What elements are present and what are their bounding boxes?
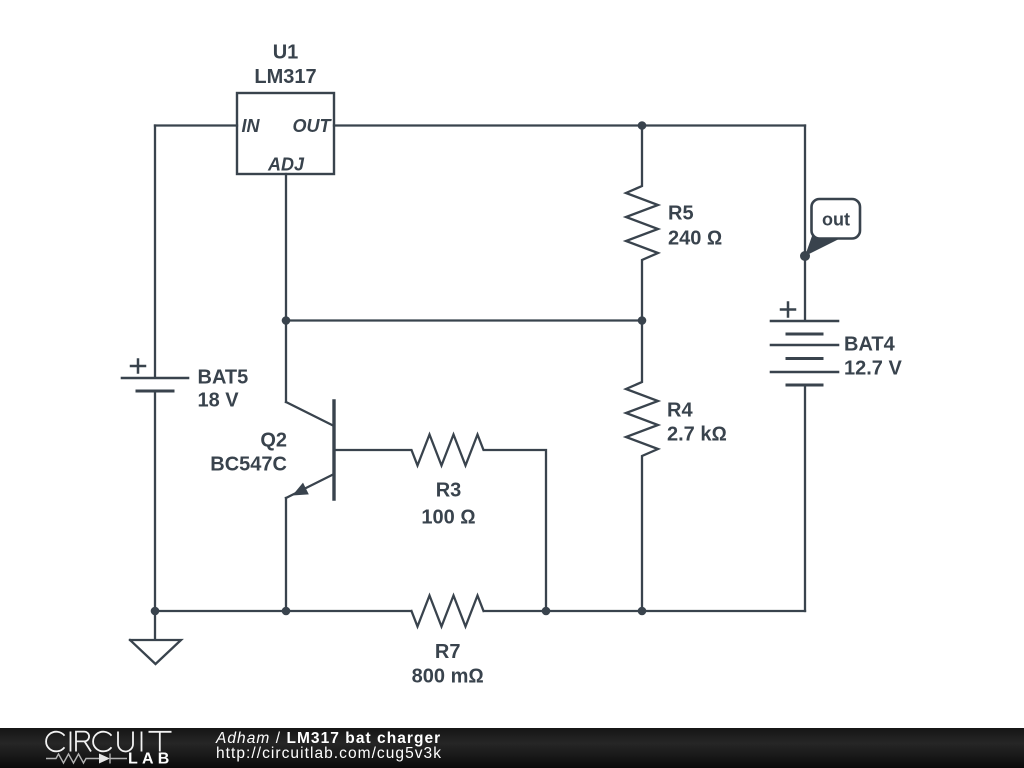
logo letter C [46, 732, 64, 752]
svg-text:LM317: LM317 [254, 66, 316, 88]
wire bottom rail left segment [155, 610, 411, 612]
logo diode [99, 754, 110, 764]
battery BAT5 plate short [137, 390, 173, 393]
transistor Q2 base bar [332, 401, 335, 499]
transistor Q2 emitter arrow [292, 483, 309, 496]
svg-text:ADJ: ADJ [267, 155, 305, 175]
svg-text:Q2: Q2 [260, 430, 287, 452]
battery BAT4 plates short [787, 334, 822, 385]
regulator U1 (LM317) body [237, 93, 334, 174]
wire ADJ pin down to node [285, 174, 287, 321]
svg-text:BAT4: BAT4 [844, 333, 896, 355]
logo letter C [93, 732, 111, 752]
svg-text:R7: R7 [435, 641, 461, 663]
transistor Q2 emitter diagonal [286, 474, 334, 498]
resistor R7 [412, 596, 484, 627]
wire right rail upper (to BAT4 +) [804, 126, 806, 321]
svg-text:800 mΩ: 800 mΩ [412, 666, 484, 688]
wire IN pin to left rail [155, 124, 237, 126]
logo letter T [149, 732, 172, 752]
battery BAT5 plus sign [131, 360, 145, 373]
svg-text:OUT: OUT [293, 116, 333, 136]
svg-text:LAB: LAB [128, 751, 173, 768]
wire left rail upper (to BAT5 +) [154, 126, 156, 378]
battery BAT4 plus sign [781, 303, 795, 317]
logo letter R [76, 732, 91, 752]
svg-text:R5: R5 [668, 203, 694, 225]
logo letter I [70, 732, 72, 752]
resistor R5 [626, 126, 658, 321]
svg-text:R4: R4 [667, 399, 693, 421]
footer bar [0, 728, 1024, 768]
wire OUT pin to right rail [334, 124, 805, 126]
logo letter I [141, 732, 143, 752]
transistor Q2 collector lead [285, 321, 287, 403]
wire right rail lower (BAT4 - to bottom rail) [804, 385, 806, 611]
net flag "out" tail [805, 235, 838, 257]
node dot emitter/bottom [282, 607, 291, 616]
svg-text:IN: IN [242, 116, 261, 136]
transistor Q2 emitter lead [285, 498, 287, 611]
resistor R3 with base lead and drop wire [334, 435, 546, 612]
svg-text:R3: R3 [436, 480, 462, 502]
node dot R4/bottom [638, 607, 647, 616]
node dot ADJ row left [282, 316, 291, 325]
svg-text:BAT5: BAT5 [198, 366, 249, 388]
logo letter U [118, 732, 133, 752]
node dot R3 drop/bottom [542, 607, 551, 616]
node dot ADJ row right (R5/R4) [638, 316, 647, 325]
footer CircuitLab logo [0, 728, 200, 768]
svg-text:U1: U1 [273, 42, 299, 64]
wire left rail lower (BAT5 - to ground rail) [154, 391, 156, 611]
node dot top (OUT/R5) [638, 121, 647, 130]
node dot ground [151, 607, 160, 616]
net flag "out" bubble [812, 199, 861, 239]
resistor R4 [626, 321, 658, 612]
logo resistor squiggle [46, 754, 99, 763]
transistor Q2 collector diagonal [286, 402, 334, 426]
svg-text:240 Ω: 240 Ω [668, 227, 722, 249]
svg-text:12.7 V: 12.7 V [844, 357, 902, 379]
svg-text:18 V: 18 V [198, 389, 240, 411]
net flag "out" node dot [800, 251, 810, 261]
battery BAT5 plate long [122, 377, 188, 380]
svg-text:100 Ω: 100 Ω [421, 507, 475, 529]
svg-text:out: out [822, 210, 850, 230]
svg-text:2.7 kΩ: 2.7 kΩ [667, 423, 727, 445]
wire mid node row (ADJ node to R4/R5 node) [286, 319, 642, 321]
wire bottom rail right segment [485, 610, 805, 612]
footer title and url text [216, 731, 442, 761]
ground symbol [130, 611, 181, 664]
svg-text:BC547C: BC547C [210, 454, 287, 476]
battery BAT4 plates long [771, 321, 838, 372]
